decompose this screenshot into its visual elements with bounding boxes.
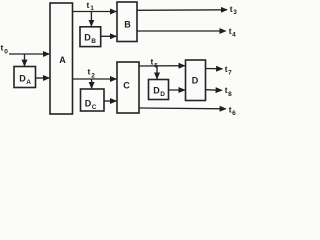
wire B output t3 (137, 9, 227, 12)
svg-text:4: 4 (232, 32, 236, 39)
svg-text:C: C (123, 81, 130, 91)
wire DB to B (101, 35, 117, 37)
wire B output t4 (137, 30, 226, 32)
wire t0 input to A (9, 53, 49, 55)
svg-text:6: 6 (232, 110, 236, 117)
svg-text:B: B (124, 20, 131, 30)
block D (186, 60, 206, 101)
wire D output t7 (206, 68, 223, 70)
svg-text:t: t (87, 0, 90, 10)
svg-text:1: 1 (90, 5, 94, 12)
svg-text:5: 5 (154, 62, 158, 69)
svg-text:D: D (160, 91, 165, 98)
wire t2 branch down to DC (91, 79, 93, 88)
wire A to C (t2 net) (73, 78, 117, 80)
delay block DD (149, 80, 169, 100)
svg-text:A: A (59, 55, 66, 65)
block B (117, 2, 137, 42)
wire A to B (t1 net) (73, 11, 117, 13)
svg-text:3: 3 (233, 9, 237, 16)
wire t5 branch down to DD (156, 66, 158, 79)
wire C to D (t5 net) (139, 65, 185, 67)
svg-text:7: 7 (228, 70, 232, 77)
svg-text:2: 2 (91, 73, 95, 80)
wire DA to A (36, 77, 50, 79)
svg-text:B: B (91, 38, 96, 45)
block C (117, 62, 139, 113)
wire DC to C (104, 100, 116, 102)
svg-text:C: C (92, 104, 97, 111)
svg-text:t: t (151, 57, 154, 67)
wire t1 branch down to DB (90, 12, 92, 27)
wire C output t6 (139, 107, 226, 110)
wire DD to D (169, 89, 185, 91)
delay block DB (80, 27, 101, 47)
wire D output t8 (206, 89, 222, 92)
svg-text:8: 8 (228, 91, 232, 98)
svg-text:t: t (88, 67, 91, 77)
delay block DA (14, 67, 36, 88)
svg-text:0: 0 (4, 49, 8, 56)
svg-text:A: A (26, 79, 31, 86)
svg-text:t: t (1, 43, 4, 53)
svg-text:D: D (192, 76, 199, 86)
wire t0 branch down to DA (24, 54, 26, 66)
delay block DC (81, 89, 105, 111)
block A (50, 3, 73, 114)
